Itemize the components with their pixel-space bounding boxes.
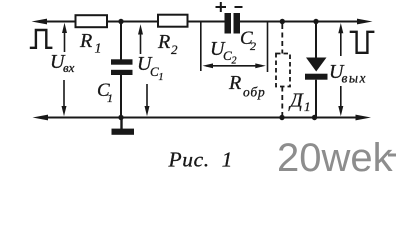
wire top bus segment R2 to C2: [187, 21, 225, 23]
node junction dot bottom C1: [118, 115, 123, 120]
minus sign of C2: [235, 6, 243, 8]
voltage arrow Uвых down: [338, 86, 343, 116]
arrowhead bottom-right: [356, 115, 372, 121]
wire top bus segment R1 to R2: [107, 21, 159, 23]
input pulse symbol: [30, 30, 53, 48]
resistor R1: [76, 15, 108, 27]
node junction dot bottom Д1: [312, 115, 317, 120]
label Uвх: [50, 51, 75, 75]
dimension double arrow UC2: [203, 63, 266, 68]
svg-text:вх: вх: [63, 60, 75, 75]
svg-text:R: R: [157, 31, 170, 53]
svg-text:R: R: [79, 30, 92, 52]
node line left of C2: [200, 22, 202, 72]
label Uвых: [329, 61, 367, 86]
node junction dot top Д1: [313, 19, 318, 24]
svg-text:вых: вых: [342, 71, 368, 86]
wire bottom bus: [41, 117, 358, 119]
svg-text:1: 1: [159, 72, 164, 83]
svg-text:1: 1: [304, 99, 311, 114]
svg-text:20wek: 20wek: [277, 136, 394, 180]
caption Рис. 1: [168, 148, 234, 172]
svg-text:R: R: [228, 72, 241, 94]
svg-text:2: 2: [171, 42, 178, 57]
arrowhead bottom-left: [33, 115, 49, 121]
voltage arrow Uвых up: [338, 23, 343, 56]
capacitor C1: [111, 22, 133, 118]
voltage arrow Uвх up: [62, 23, 67, 52]
label Rобр: [228, 72, 266, 100]
svg-text:обр: обр: [243, 85, 266, 100]
svg-text:2: 2: [232, 56, 237, 67]
node junction dot bottom Rобр: [279, 115, 284, 120]
label Д1: [288, 90, 311, 115]
svg-text:Рис. 1: Рис. 1: [168, 148, 234, 172]
ground: [112, 118, 135, 135]
svg-text:1: 1: [95, 42, 102, 57]
voltage arrow UC1 down: [145, 84, 150, 116]
resistor R2: [158, 15, 188, 27]
label R2: [157, 31, 178, 57]
node A junction dot top C1: [118, 19, 123, 24]
watermark dash: [388, 154, 396, 157]
wire top bus segment C2 to right end: [240, 21, 361, 23]
node junction dot top Rобр: [280, 19, 285, 24]
label C2: [240, 28, 256, 53]
voltage arrow UC1 up: [138, 24, 143, 54]
node line right of C2: [267, 22, 269, 73]
voltage arrow Uвх down: [62, 80, 67, 116]
label C1: [97, 80, 113, 105]
arrowhead top-left: [32, 19, 48, 25]
capacitor C2: [225, 13, 241, 34]
svg-text:1: 1: [107, 91, 113, 105]
label R1: [79, 30, 102, 57]
label UC2: [210, 38, 237, 67]
watermark 20wek: [277, 136, 394, 180]
resistor Rобр dashed: [276, 24, 290, 118]
svg-text:Д: Д: [288, 90, 304, 112]
label UC1: [137, 53, 164, 83]
svg-text:2: 2: [250, 39, 256, 53]
wire top bus segment left: [40, 21, 76, 23]
output pulse symbol: [350, 32, 375, 53]
plus sign of C2: [216, 2, 227, 12]
arrowhead top-right: [357, 19, 373, 25]
diode Д1: [305, 22, 328, 118]
